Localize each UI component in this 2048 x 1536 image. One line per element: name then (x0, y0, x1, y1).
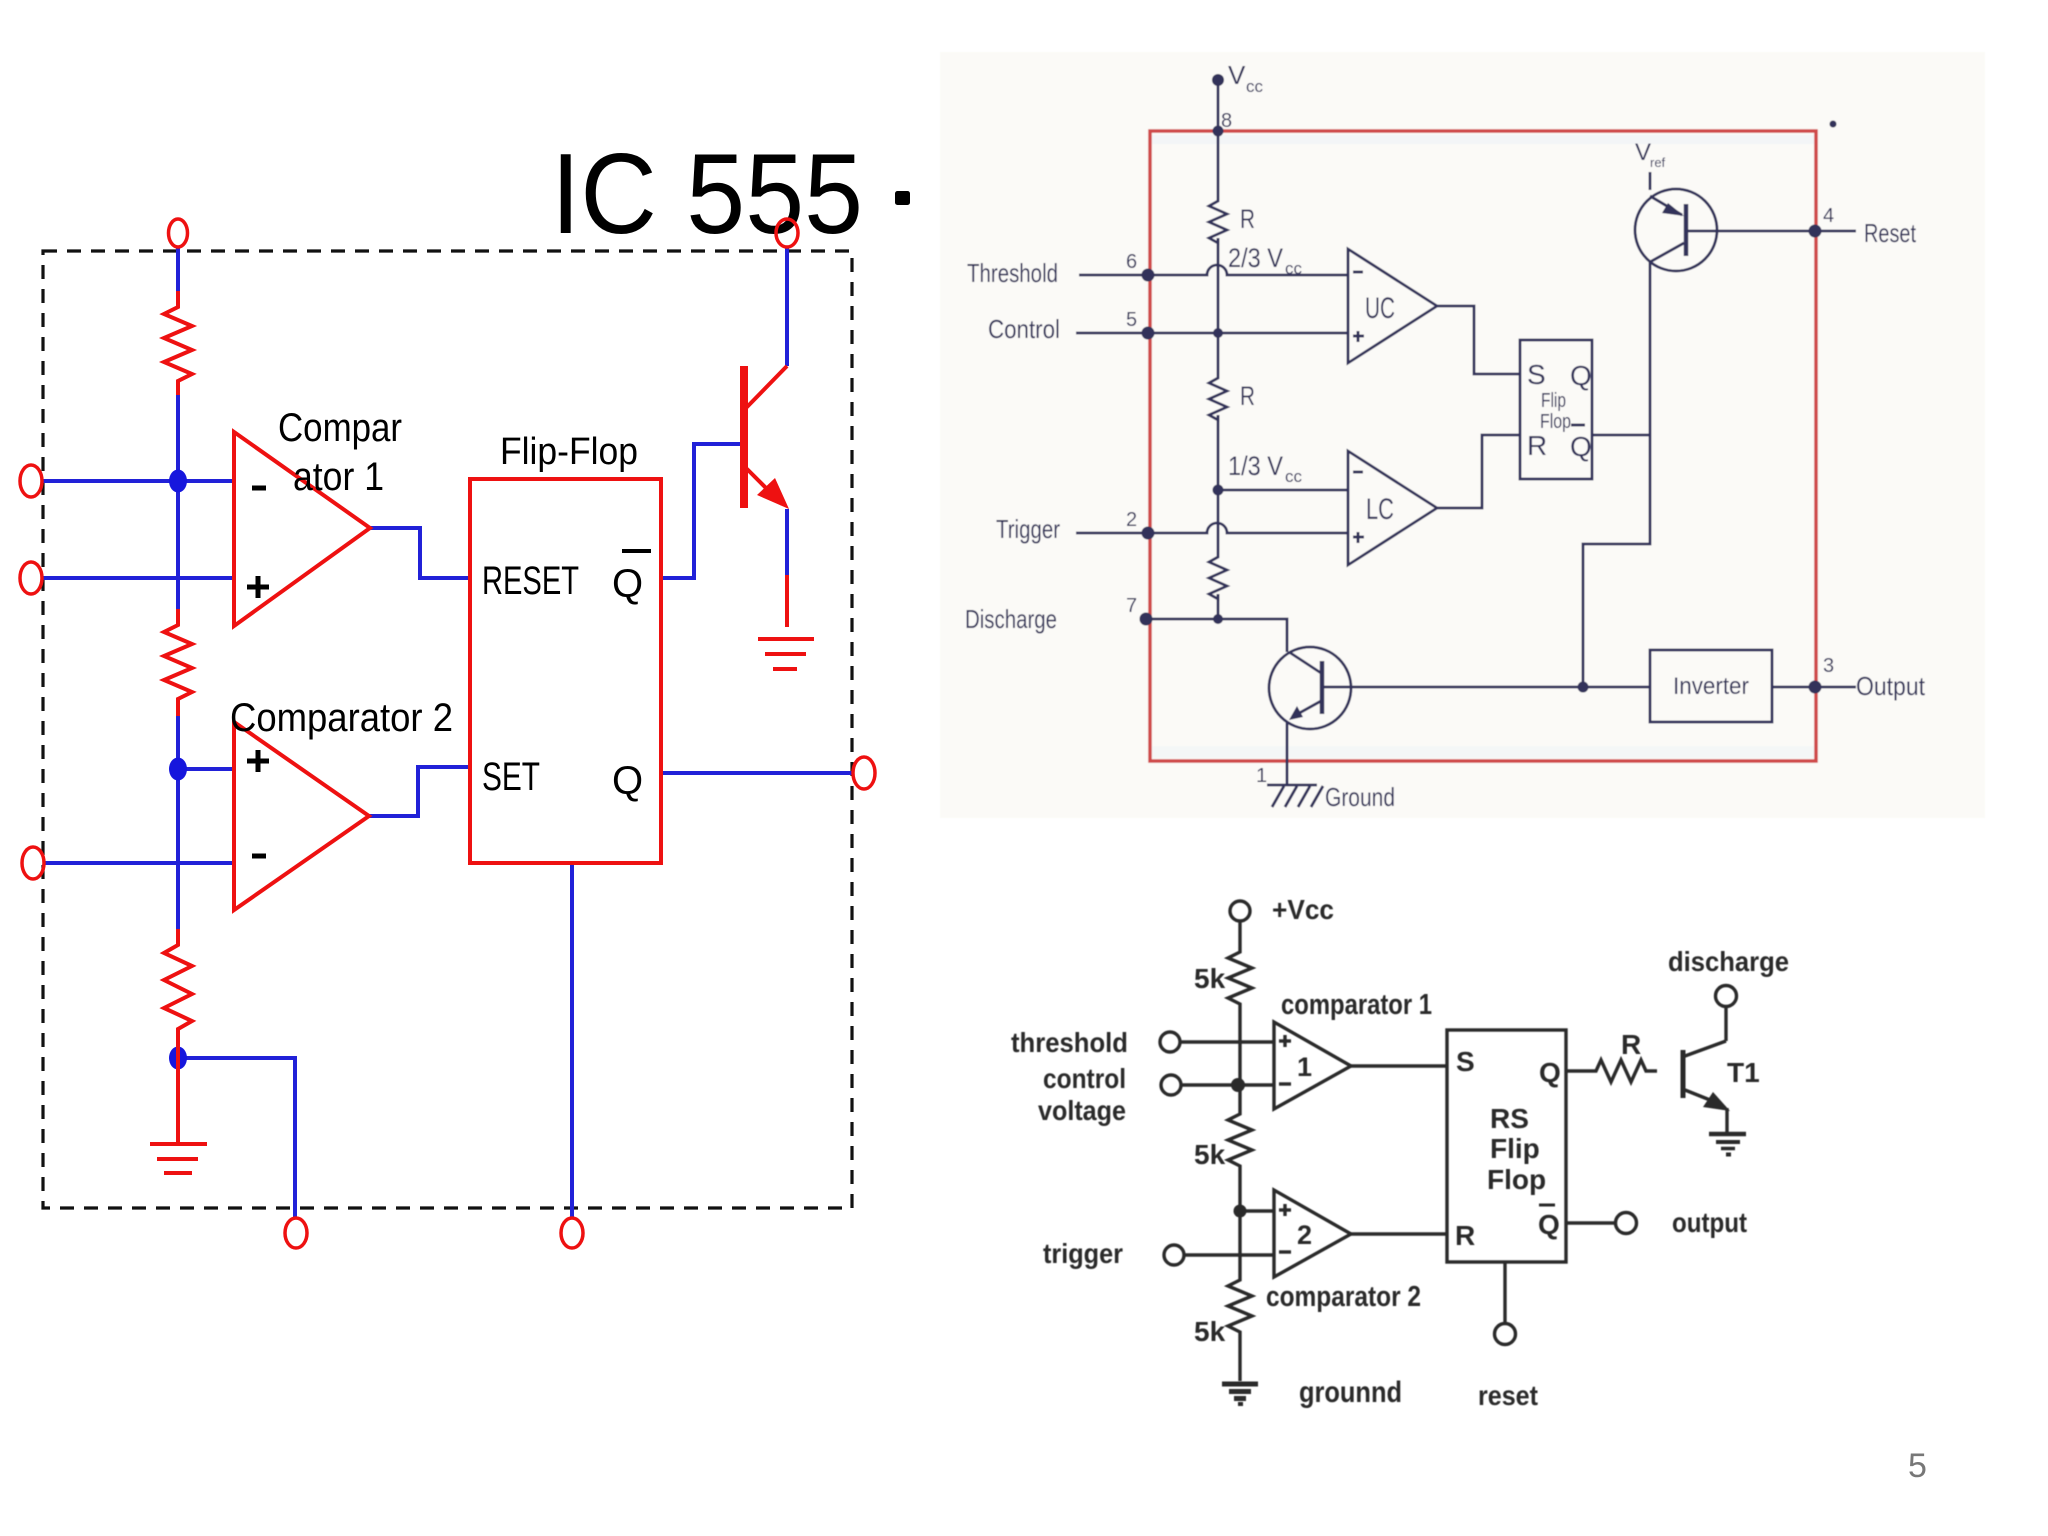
svg-text:RESET: RESET (482, 559, 579, 603)
svg-text:8: 8 (1221, 110, 1232, 132)
svg-text:R: R (1240, 381, 1255, 411)
svg-text:7: 7 (1126, 595, 1137, 617)
svg-text:S: S (1527, 359, 1546, 390)
svg-text:1: 1 (1256, 765, 1267, 787)
svg-text:comparator 1: comparator 1 (1281, 989, 1432, 1021)
svg-text:Flip: Flip (1490, 1133, 1540, 1164)
svg-text:Reset: Reset (1864, 218, 1917, 248)
svg-text:5k: 5k (1194, 1139, 1226, 1170)
svg-text:Trigger: Trigger (996, 514, 1060, 544)
svg-text:cc: cc (1246, 77, 1264, 96)
svg-text:2: 2 (1126, 509, 1137, 531)
svg-text:1: 1 (1297, 1052, 1312, 1082)
svg-text:Q: Q (1570, 431, 1592, 462)
svg-text:Q: Q (1539, 1057, 1561, 1088)
svg-text:Compar: Compar (278, 406, 402, 450)
svg-text:6: 6 (1126, 251, 1137, 273)
svg-text:V: V (1635, 139, 1651, 166)
svg-text:Q: Q (612, 759, 643, 803)
svg-text:Inverter: Inverter (1673, 673, 1749, 700)
svg-text:Ground: Ground (1325, 782, 1395, 812)
svg-text:comparator 2: comparator 2 (1266, 1281, 1421, 1313)
svg-text:3: 3 (1823, 655, 1834, 677)
svg-text:threshold: threshold (1011, 1027, 1128, 1058)
svg-text:discharge: discharge (1668, 946, 1789, 977)
svg-text:R: R (1455, 1220, 1475, 1251)
svg-text:control: control (1043, 1063, 1126, 1094)
svg-text:trigger: trigger (1043, 1238, 1123, 1269)
svg-text:+Vcc: +Vcc (1272, 894, 1334, 925)
svg-text:R: R (1527, 430, 1547, 461)
svg-text:Flop: Flop (1487, 1164, 1546, 1195)
svg-text:2/3 V: 2/3 V (1228, 243, 1283, 273)
svg-text:reset: reset (1478, 1380, 1538, 1411)
svg-text:V: V (1228, 60, 1246, 90)
svg-text:Q: Q (612, 562, 643, 606)
svg-text:ref: ref (1650, 155, 1666, 170)
svg-text:ator 1: ator 1 (293, 455, 384, 499)
svg-text:RS: RS (1490, 1103, 1529, 1134)
svg-text:R: R (1621, 1029, 1641, 1060)
svg-text:S: S (1456, 1046, 1475, 1077)
svg-text:R: R (1240, 204, 1255, 234)
svg-text:IC 555: IC 555 (551, 131, 863, 258)
svg-text:voltage: voltage (1038, 1095, 1126, 1126)
svg-text:4: 4 (1823, 205, 1834, 227)
svg-text:Discharge: Discharge (965, 604, 1057, 634)
svg-text:Flip: Flip (1541, 390, 1566, 412)
svg-text:output: output (1672, 1207, 1747, 1238)
svg-text:1/3 V: 1/3 V (1228, 451, 1283, 481)
svg-text:Flip-Flop: Flip-Flop (500, 431, 638, 473)
svg-text:cc: cc (1285, 467, 1303, 486)
svg-text:Control: Control (988, 314, 1060, 344)
svg-text:5: 5 (1126, 309, 1137, 331)
svg-text:Threshold: Threshold (967, 258, 1058, 288)
svg-text:Q: Q (1538, 1209, 1560, 1240)
svg-text:T1: T1 (1727, 1057, 1760, 1088)
svg-text:Q: Q (1570, 360, 1592, 391)
svg-text:Comparator 2: Comparator 2 (230, 696, 453, 740)
svg-text:LC: LC (1366, 493, 1394, 526)
svg-text:SET: SET (482, 755, 540, 799)
svg-text:cc: cc (1285, 259, 1303, 278)
svg-text:UC: UC (1365, 292, 1395, 325)
svg-text:5: 5 (1908, 1447, 1927, 1485)
svg-text:Output: Output (1856, 671, 1926, 701)
svg-text:grounnd: grounnd (1299, 1376, 1402, 1409)
svg-text:2: 2 (1297, 1220, 1312, 1250)
svg-text:5k: 5k (1194, 1316, 1226, 1347)
svg-text:5k: 5k (1194, 963, 1226, 994)
